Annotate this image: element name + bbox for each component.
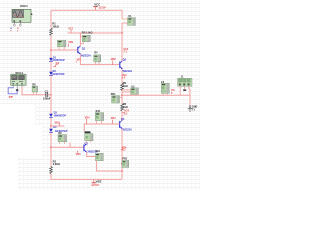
capacitor C1 100nF [43,89,51,100]
svg-text:100nF: 100nF [43,97,51,101]
connector J1 (3-pin box at output) [178,76,192,96]
net label VC2 (red, 2 lines) [123,48,128,54]
svg-text:12.5V: 12.5V [99,6,106,10]
svg-text:8.1: 8.1 [124,113,128,116]
svg-text:PR2: PR2 [122,158,127,161]
ammeter XMM2 (series box, right of emitter chain) [122,85,138,94]
resistor R6 zigzag [121,81,128,90]
resistor R9 (footprint box near D4) [58,132,67,144]
net label VD4 (red) [85,116,90,123]
wire R7 to Q4 collector [121,111,123,121]
net label VD1 (red) [53,62,59,66]
VEE power symbol -12.5V [91,179,102,186]
svg-text:VD4: VD4 [85,116,90,119]
diode D4 1N4007GP [49,126,68,133]
resistor R2 (footprint box on Q1 base wire) [57,40,66,50]
svg-text:R11: R11 [96,150,101,153]
wire rail D1-D2 [50,62,52,72]
net label VE2 (red, 2 lines) [122,74,127,80]
transistor Q1 2N2222A [78,46,91,58]
capacitor C4 (footprint box above Q3) [85,131,94,143]
svg-text:VB3: VB3 [76,153,81,156]
ground net label [192,105,198,111]
wire rail D3-D4 with junction [50,117,52,128]
wire rail R5 to bottom rail [51,174,122,180]
net label VC1 (red) [68,27,73,32]
sheet edge white area (no grid) [0,104,35,126]
resistor R5 zigzag [50,159,60,173]
diode D3 1N4007GP [49,112,66,118]
resistor R7 zigzag [121,102,128,111]
svg-text:-8.1: -8.1 [121,149,126,152]
wire Q3 base (rail junction to Q3) [51,143,84,148]
wire Q1 collector up [79,33,81,46]
resistor R8 (source series, footprint box) [32,84,38,95]
ammeter XMM1 (series box at top right) [122,15,135,25]
svg-text:R3 5.1kΩ: R3 5.1kΩ [82,31,93,34]
svg-text:T1: T1 [192,109,196,112]
probe PR1 (box left of emitter chain) [111,93,122,103]
wire Q2 emitter down to R6 [121,69,123,83]
net label VB4 (red) [111,117,116,124]
probe PR2 (box on lower right vertical) [122,158,129,168]
wire rail D2 to C1 junction to D3 [50,75,52,113]
svg-text:VB2: VB2 [111,58,116,61]
wire rail D4 to R5 with junction at base wire [50,132,52,166]
resistor RE3 (footprint box at Q3 emitter) [95,150,103,161]
resistor R1 zigzag [50,22,59,36]
svg-text:1N4007GP: 1N4007GP [54,114,67,117]
wire collector rail y33 [68,32,123,34]
transistor Q3 2N2222A [84,141,98,153]
svg-text:Q2: Q2 [123,57,127,61]
wire XFG1 plus-to-COM (blue) [8,87,17,94]
wire J1 right pin down to ground [189,89,190,106]
net label VO (red, 2 lines) [171,89,175,95]
oscilloscope XSC1 [10,4,32,33]
svg-text:R4: R4 [94,52,98,55]
transistor Q4 2N2222A [120,117,133,132]
transistor Q2 2N2222A [120,57,133,72]
wire XFG1 output to C1 [22,87,46,95]
net label VB1 (red) [68,41,73,47]
svg-text:0: 0 [171,92,173,95]
svg-text:T: T [17,31,19,33]
svg-text:-12.5V: -12.5V [91,183,99,187]
svg-text:Q1: Q1 [82,46,86,50]
wire Q1 emitter down and right to Q2 base [80,54,119,64]
resistor R3 label on wire [82,31,93,34]
svg-text:Q4: Q4 [121,117,125,121]
svg-text:0: 0 [9,95,11,99]
net label VB3 (red) [76,151,81,156]
wire emitter chain between R6 and R7 with output junction [121,90,123,104]
wire VD3 branch (y126) [51,125,65,127]
VCC power symbol 12.5V [93,3,105,11]
resistor R3 (footprint box) [80,33,90,44]
net label VD3 (red) [55,121,60,125]
wire Q1 base [51,49,78,51]
net label VE1 (red) [76,58,82,62]
wire VCC top rail [51,9,122,11]
svg-text:VE1: VE1 [77,58,82,61]
wire Q3 emitter to RE3 and down to y171 rail [87,152,122,171]
svg-text:1N4007GP: 1N4007GP [52,73,65,76]
svg-text:VB1: VB1 [68,41,73,44]
svg-text:7.1: 7.1 [123,51,127,54]
wire Q2 collector segment [121,33,123,61]
function generator XFG1 [11,71,26,89]
svg-text:VB4: VB4 [111,117,116,120]
junction dot at XFG1 COM [16,89,18,91]
svg-text:VD3: VD3 [55,121,60,124]
wire left rail (R1 to base-wire junction) [50,35,52,58]
net label VE3 (red, 2 lines with tick) [121,146,127,151]
diode D1 1N4007GP [49,56,65,62]
svg-text:2N2222A: 2N2222A [122,70,133,73]
ground symbol [188,106,192,112]
svg-text:30kΩ: 30kΩ [52,24,58,28]
net label VB2 (red) [111,58,116,65]
svg-text:4.3kΩ: 4.3kΩ [53,162,60,166]
resistor R10 (footprint box on Q4 base wire) [95,110,104,124]
wire output (y95) [122,94,190,96]
svg-text:T: T [10,31,12,33]
wire VCC branch down (x122) [121,10,123,34]
svg-text:1kΩ: 1kΩ [123,84,128,88]
svg-text:2N2222A: 2N2222A [121,129,132,132]
wire left rail (top segment to R1) [50,10,52,28]
resistor R4 (footprint box on emitter wire) [94,52,101,65]
svg-text:XSC1: XSC1 [20,4,28,8]
svg-text:2N2222A: 2N2222A [80,55,91,58]
wire C1 to left rail junction [48,94,52,96]
wire Q4 base branch (from diode chain area to Q4) [84,124,119,131]
net label 0 (red) [9,95,13,99]
diode D2 1N4007GP [49,70,65,76]
wire Q4 emitter down to bottom-right corner [121,129,123,180]
capacitor C3 (footprint box on output wire) [161,81,169,96]
net label VC4 (red with tick) [122,110,129,116]
